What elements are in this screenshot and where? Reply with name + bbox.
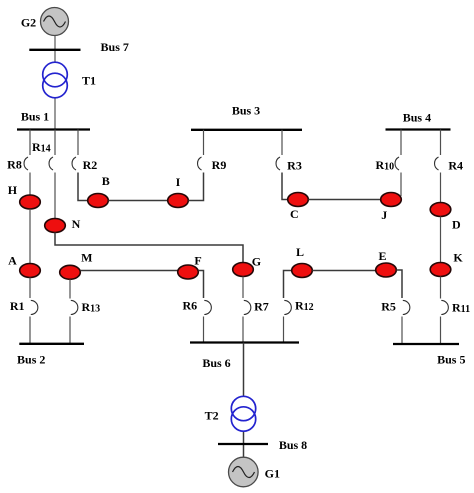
wire Bus3 to R3	[281, 130, 283, 155]
wire R13 to Bus2	[69, 317, 71, 344]
bus Bus 2	[19, 343, 84, 345]
label N	[72, 217, 81, 231]
svg-text:R4: R4	[448, 159, 463, 173]
node A	[20, 264, 41, 278]
recloser R6 arc	[204, 300, 211, 314]
bus Bus 1	[17, 128, 90, 130]
svg-text:T2: T2	[205, 409, 219, 423]
label T1	[82, 74, 96, 88]
wire R9 to Bus3	[203, 130, 205, 155]
label C	[290, 207, 299, 221]
recloser R7 arc	[244, 300, 251, 314]
svg-text:Bus 4: Bus 4	[403, 111, 431, 125]
node K	[430, 263, 451, 277]
wire R4 to D	[440, 173, 442, 204]
label R2	[83, 158, 98, 172]
label L	[296, 245, 304, 259]
recloser R13 arc	[71, 300, 78, 314]
label R14	[32, 140, 51, 155]
wire M to F	[80, 270, 177, 272]
bus Bus 4	[386, 128, 451, 130]
label R5	[381, 300, 396, 314]
label G	[252, 255, 261, 269]
transformer T2	[231, 396, 255, 431]
wire C to J	[308, 199, 380, 201]
svg-text:A: A	[8, 254, 17, 268]
bus Bus 6	[190, 341, 299, 343]
label I	[176, 175, 181, 189]
node N	[45, 219, 66, 233]
label Bus 3	[232, 103, 260, 117]
label Bus 4	[403, 111, 431, 125]
wire Bus1 to R2	[77, 130, 79, 156]
label B	[102, 174, 110, 188]
label F	[194, 254, 201, 268]
label M	[81, 251, 92, 265]
label Bus 5	[437, 352, 465, 366]
label R1	[10, 299, 25, 313]
wire K to R11	[440, 277, 442, 299]
wire L to E	[312, 270, 375, 272]
svg-text:G1: G1	[265, 467, 280, 481]
recloser R1 arc	[31, 300, 38, 314]
wire R12 to Bus6	[283, 317, 285, 343]
wire R8 to H	[29, 173, 31, 198]
label R6	[182, 299, 197, 313]
node L	[292, 264, 313, 278]
label R8	[7, 158, 22, 172]
svg-text:D: D	[452, 218, 461, 232]
label G1	[265, 467, 280, 481]
recloser R8 arc	[24, 157, 28, 170]
recloser R5 arc	[403, 300, 410, 314]
label R4	[448, 159, 463, 173]
bus Bus 5	[393, 343, 459, 345]
node C	[288, 193, 309, 207]
label Bus 7	[101, 40, 129, 54]
label A	[8, 254, 17, 268]
transformer T1	[43, 62, 68, 98]
node I	[168, 194, 189, 208]
svg-text:H: H	[8, 183, 18, 197]
svg-text:R9: R9	[212, 158, 227, 172]
svg-text:L: L	[296, 245, 304, 259]
svg-text:Bus 1: Bus 1	[21, 110, 49, 124]
svg-text:G: G	[252, 255, 261, 269]
recloser R11 arc	[441, 300, 448, 314]
svg-text:Bus 5: Bus 5	[437, 352, 465, 366]
label R10	[376, 158, 395, 173]
generator G1	[229, 457, 259, 487]
wire Bus6 to T2 to Bus8 to G1	[243, 343, 245, 459]
svg-text:M: M	[81, 251, 92, 265]
label R9	[212, 158, 227, 172]
wire R5 to Bus5	[401, 317, 403, 345]
svg-text:K: K	[453, 250, 463, 264]
svg-text:Bus 3: Bus 3	[232, 103, 260, 117]
svg-text:R1: R1	[10, 299, 25, 313]
node D	[430, 203, 451, 217]
recloser R4 arc	[435, 157, 439, 170]
wire R6 to Bus6	[203, 317, 205, 343]
label Bus 6	[202, 356, 230, 370]
svg-text:T1: T1	[82, 74, 96, 88]
label Bus 8	[279, 438, 307, 452]
wire A to R1	[29, 278, 31, 299]
node B	[88, 194, 109, 208]
svg-text:B: B	[102, 174, 110, 188]
bus Bus 8	[218, 443, 268, 445]
wire F to R6 corner	[198, 271, 203, 299]
generator G2	[41, 8, 69, 36]
svg-text:J: J	[381, 208, 387, 222]
wire R14 to N	[54, 173, 56, 220]
wire R10 to Bus4	[400, 130, 402, 156]
label H	[8, 183, 18, 197]
wire E to R5 corner	[396, 270, 402, 298]
wire H to A	[29, 209, 31, 264]
svg-text:I: I	[176, 175, 181, 189]
label G2	[21, 16, 36, 30]
svg-text:R6: R6	[182, 299, 197, 313]
wire R11 to Bus5	[440, 317, 442, 345]
label E	[378, 249, 386, 263]
label D	[452, 218, 461, 232]
label Bus 1	[21, 110, 49, 124]
bus Bus 3	[191, 129, 302, 131]
svg-text:Bus 6: Bus 6	[202, 356, 230, 370]
wire J up to R10	[400, 173, 402, 197]
svg-text:Bus 7: Bus 7	[101, 40, 129, 54]
wire B to I	[108, 200, 167, 202]
wire R7 to Bus6	[242, 317, 244, 343]
wire N down and across to G	[55, 233, 243, 263]
label T2	[205, 409, 219, 423]
wire M to R13	[69, 279, 71, 298]
node F	[178, 265, 199, 279]
wire R3 down to C	[282, 173, 288, 200]
node H	[20, 195, 41, 209]
svg-text:F: F	[194, 254, 201, 268]
node M	[60, 265, 81, 279]
svg-text:R3: R3	[287, 159, 302, 173]
label R7	[254, 299, 269, 313]
label R3	[287, 159, 302, 173]
svg-text:E: E	[378, 249, 386, 263]
recloser R9 arc	[198, 157, 202, 170]
wire Bus1 to R14	[54, 130, 56, 156]
recloser R10 arc	[395, 157, 399, 170]
svg-text:N: N	[72, 217, 81, 231]
svg-text:R5: R5	[381, 300, 396, 314]
svg-text:C: C	[290, 207, 299, 221]
node G	[233, 263, 254, 277]
recloser R14 arc	[49, 157, 53, 170]
label J	[381, 208, 387, 222]
recloser R2 arc	[72, 157, 76, 170]
wire R1 to Bus2	[29, 317, 31, 344]
node J	[381, 193, 402, 207]
svg-text:R7: R7	[254, 299, 269, 313]
recloser R12 arc	[284, 300, 291, 314]
bus Bus 7	[29, 49, 80, 51]
label R13	[82, 300, 101, 315]
svg-text:R8: R8	[7, 158, 22, 172]
wire R2 down to B	[78, 173, 88, 201]
svg-text:Bus 8: Bus 8	[279, 438, 307, 452]
wire I to R9 corner	[188, 173, 203, 201]
wire L corner to R12	[284, 271, 292, 299]
label R11	[452, 301, 470, 316]
wire Bus4 to R4	[440, 130, 442, 156]
label Bus 2	[17, 353, 45, 367]
wire G to R7	[242, 277, 244, 299]
svg-text:Bus 2: Bus 2	[17, 353, 45, 367]
label K	[453, 250, 463, 264]
svg-text:R2: R2	[83, 158, 98, 172]
recloser R3 arc	[276, 157, 280, 170]
label R12	[295, 299, 314, 314]
node E	[376, 263, 397, 277]
wire G2 to Bus7 to T1 to Bus1	[54, 34, 56, 130]
svg-text:G2: G2	[21, 16, 36, 30]
wire D to K	[440, 217, 442, 264]
wire Bus1 to R8	[29, 130, 31, 156]
